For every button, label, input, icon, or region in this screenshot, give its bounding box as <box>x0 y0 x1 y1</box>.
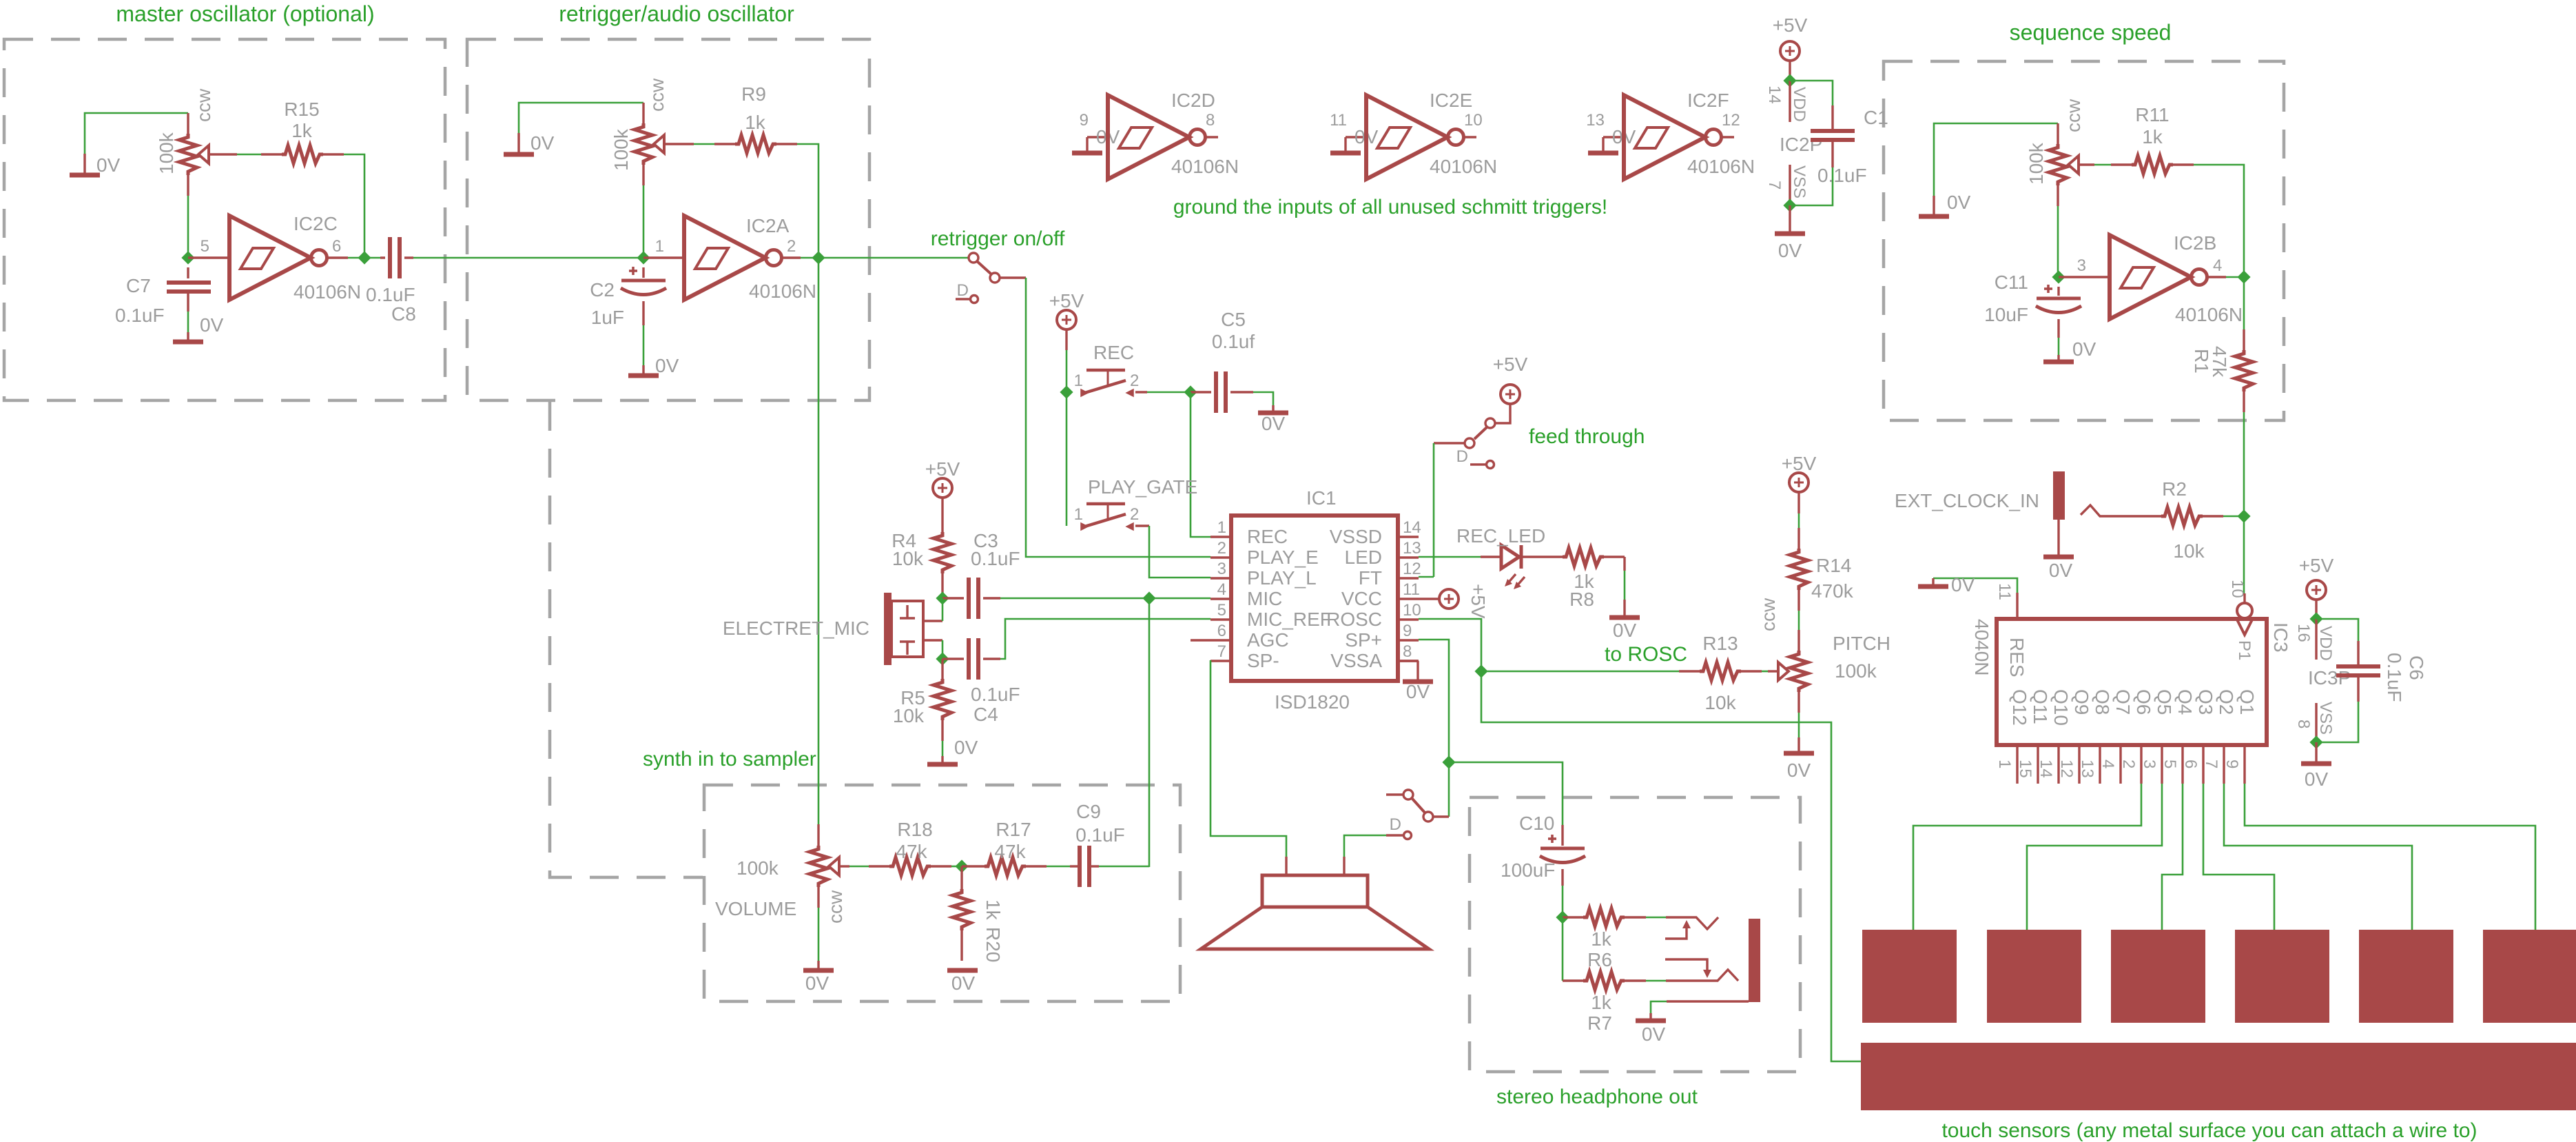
svg-text:0.1uf: 0.1uf <box>1212 331 1255 352</box>
svg-text:ccw: ccw <box>1758 598 1779 631</box>
svg-text:10k: 10k <box>2173 540 2205 562</box>
ground 0V (R8) <box>1609 600 1640 641</box>
wire C3 to MIC pin4 <box>1000 598 1210 600</box>
pin number 2 (PLAY_GATE) <box>1130 505 1139 524</box>
label 100k (sequence pot) <box>2026 142 2047 185</box>
svg-text:100k: 100k <box>2026 142 2047 185</box>
node MIC_REF <box>938 654 948 664</box>
svg-text:10uF: 10uF <box>1984 304 2028 325</box>
resistor R4 10k <box>934 498 951 594</box>
label 0.1uF (C8) <box>366 284 415 305</box>
label 40106N (IC2B) <box>2175 304 2243 325</box>
svg-text:12: 12 <box>1722 111 1740 130</box>
resistor R11 1k <box>2111 156 2194 174</box>
resistor R17 47k <box>962 857 1047 875</box>
svg-text:5: 5 <box>1217 601 1226 620</box>
wire R18 to node <box>951 866 962 868</box>
svg-text:VOLUME: VOLUME <box>715 898 796 919</box>
wire C5 node to REC pin1 of IC1 <box>1191 392 1210 537</box>
label R1 <box>2191 349 2212 374</box>
svg-text:0V: 0V <box>200 314 224 336</box>
schmitt inverter IC2E (unused) <box>1330 90 1497 179</box>
wire node to P1 pin10 <box>2243 516 2245 593</box>
jack EXT_CLOCK_IN <box>2053 471 2141 520</box>
svg-text:LED: LED <box>1345 547 1382 568</box>
ground 0V (C11) <box>2043 338 2096 362</box>
ground 0V (C2) <box>628 355 679 376</box>
svg-text:1: 1 <box>1074 505 1083 524</box>
svg-text:100k: 100k <box>156 132 177 174</box>
svg-text:7: 7 <box>1765 181 1784 190</box>
svg-text:0V: 0V <box>1613 620 1637 641</box>
svg-text:1: 1 <box>1074 371 1083 390</box>
svg-text:7: 7 <box>2202 759 2220 768</box>
svg-text:6: 6 <box>1217 622 1226 640</box>
node input IC2B <box>2054 272 2064 283</box>
ground 0V (master top-left) <box>70 154 121 176</box>
svg-text:47k: 47k <box>994 841 1026 862</box>
svg-text:0V: 0V <box>1642 1023 1666 1045</box>
svg-text:40106N: 40106N <box>293 281 361 303</box>
svg-text:0V: 0V <box>2305 768 2329 790</box>
dashed box: sequence speed region <box>1884 61 2284 420</box>
svg-text:1k: 1k <box>291 120 313 141</box>
wire C7 to ground <box>187 312 189 332</box>
svg-text:0.1uF: 0.1uF <box>971 684 1020 705</box>
svg-text:C2: C2 <box>590 279 615 300</box>
label PITCH <box>1833 633 1890 654</box>
label 10k (R4) <box>892 548 924 569</box>
svg-text:R20: R20 <box>982 927 1004 962</box>
wire mic- to ref node <box>942 640 944 659</box>
ground 0V (retrigger top-left) <box>504 132 555 154</box>
svg-text:R17: R17 <box>996 819 1031 840</box>
label IC1 <box>1306 487 1337 509</box>
schmitt inverter IC2F (unused) <box>1586 90 1755 179</box>
svg-text:11: 11 <box>1995 583 2014 600</box>
capacitor C9 0.1uF <box>1070 846 1099 887</box>
svg-text:ISD1820: ISD1820 <box>1275 691 1350 713</box>
svg-text:MIC: MIC <box>1247 588 1282 609</box>
label IC3 <box>2270 622 2291 653</box>
svg-text:1k: 1k <box>2142 126 2163 147</box>
svg-text:8: 8 <box>1403 642 1412 661</box>
svg-text:0V: 0V <box>1787 759 1811 781</box>
label C3 <box>973 530 998 551</box>
svg-text:15: 15 <box>2016 759 2034 778</box>
label 0.1uF (C1) <box>1817 165 1867 186</box>
pin number 1 (REC) <box>1074 371 1083 390</box>
svg-text:1k: 1k <box>982 899 1004 921</box>
pin number 4 (IC2B) <box>2213 256 2222 275</box>
touch sensor common bar <box>1861 1043 2576 1110</box>
power +5V (R4) <box>925 458 960 498</box>
svg-text:PITCH: PITCH <box>1833 633 1890 654</box>
wire PITCH to ground <box>1798 713 1800 737</box>
svg-text:C7: C7 <box>126 275 151 296</box>
svg-text:40106N: 40106N <box>1430 156 1497 177</box>
svg-text:470k: 470k <box>1811 580 1854 602</box>
svg-text:+5V: +5V <box>1773 14 1808 36</box>
IC U3 4040N (IC3) <box>1995 580 2267 784</box>
svg-text:IC2B: IC2B <box>2174 232 2216 254</box>
svg-text:Q1: Q1 <box>2236 689 2258 715</box>
label C2 <box>590 279 615 300</box>
label 47k (R17) <box>994 841 1026 862</box>
svg-text:40106N: 40106N <box>1171 156 1239 177</box>
label ground the inputs of all unused schmitt triggers <box>1173 196 1607 218</box>
svg-text:0V: 0V <box>805 972 830 994</box>
svg-text:R14: R14 <box>1816 555 1851 576</box>
wire R13 to PITCH wiper <box>1762 671 1768 673</box>
label 10k (R2) <box>2173 540 2205 562</box>
capacitor C5 0.1uf <box>1191 371 1253 413</box>
ground 0V (IC3 RES) <box>1918 574 1975 595</box>
svg-text:R2: R2 <box>2162 478 2187 500</box>
label R20 <box>982 927 1004 962</box>
label synth in to sampler <box>643 748 816 771</box>
svg-text:1k: 1k <box>1591 928 1612 950</box>
svg-text:C8: C8 <box>391 303 416 325</box>
wire branch to C9 <box>1148 598 1151 867</box>
svg-text:C6: C6 <box>2406 655 2427 680</box>
svg-text:C4: C4 <box>973 704 998 725</box>
svg-text:ccw: ccw <box>646 78 668 112</box>
svg-text:ROSC: ROSC <box>1326 609 1382 630</box>
switch feed through <box>1434 418 1495 448</box>
IC1 pin6 AGC stub <box>1191 639 1231 641</box>
svg-text:VSSA: VSSA <box>1330 650 1382 671</box>
wire RES pin11 to ground <box>1933 578 2017 593</box>
ground 0V (PITCH) <box>1784 737 1814 781</box>
label master oscillator (optional) <box>116 1 374 26</box>
label 40106N (IC2C) <box>293 281 361 303</box>
resistor R8 1k <box>1522 548 1625 571</box>
svg-text:Q3: Q3 <box>2195 689 2216 715</box>
svg-text:47k: 47k <box>896 841 927 862</box>
label REC_LED <box>1456 525 1545 547</box>
label R17 <box>996 819 1031 840</box>
svg-text:2: 2 <box>2119 759 2138 768</box>
IC2P VDD pin <box>1765 61 1809 122</box>
label C9 <box>1076 801 1101 822</box>
resistor R7 1k <box>1563 917 1646 990</box>
wire R15 to output node (master) <box>344 154 364 258</box>
svg-text:synth in to sampler: synth in to sampler <box>643 748 816 771</box>
svg-text:Q4: Q4 <box>2174 689 2196 715</box>
label 1k (R15) <box>291 120 313 141</box>
node MIC bias <box>938 593 948 604</box>
resistor R9 1k <box>714 135 797 153</box>
label ccw (VOLUME pot) <box>825 890 846 924</box>
label to ROSC <box>1605 643 1687 666</box>
inverter IC2C pin5 stub <box>188 256 229 258</box>
label C10 <box>1519 813 1554 834</box>
wire R9 to output node (retrigger) <box>797 144 818 258</box>
svg-text:14: 14 <box>2037 759 2055 778</box>
svg-text:ccw: ccw <box>193 88 214 122</box>
svg-text:100k: 100k <box>736 857 779 879</box>
svg-text:8: 8 <box>2294 720 2313 728</box>
svg-text:Q12: Q12 <box>2009 689 2030 726</box>
svg-text:4: 4 <box>2099 759 2117 768</box>
electret mic ELECTRET_MIC <box>884 593 942 665</box>
svg-text:master oscillator (optional): master oscillator (optional) <box>116 1 374 26</box>
label 40106N (IC2A) <box>749 281 816 302</box>
svg-text:R9: R9 <box>741 83 766 105</box>
svg-text:11: 11 <box>1330 111 1347 130</box>
svg-text:REC: REC <box>1247 526 1288 547</box>
capacitor C11 10uF polarized <box>2036 285 2081 338</box>
wire node to R13 <box>1481 671 1679 673</box>
wire R11 to output node (sequence) <box>2194 165 2244 277</box>
svg-text:retrigger on/off: retrigger on/off <box>931 227 1065 250</box>
node MIC pin4 branch <box>1144 593 1155 604</box>
svg-text:0.1uF: 0.1uF <box>1075 824 1125 846</box>
svg-text:0V: 0V <box>1261 413 1286 434</box>
switch speaker throw D <box>1386 815 1412 839</box>
label R15 <box>284 99 319 120</box>
power +5V (IC3P) <box>2299 555 2334 600</box>
potentiometer VOLUME 100k <box>810 824 849 908</box>
inverter IC2A pin1 stub <box>643 256 684 258</box>
svg-text:8: 8 <box>1206 111 1215 130</box>
label 47k (R18) <box>896 841 927 862</box>
label R9 <box>741 83 766 105</box>
wire ROSC pin10 to node <box>1419 619 1481 671</box>
svg-text:Q5: Q5 <box>2154 689 2175 715</box>
svg-text:2: 2 <box>1217 539 1226 558</box>
svg-text:ELECTRET_MIC: ELECTRET_MIC <box>723 618 869 639</box>
label 100k (retrigger pot) <box>610 128 632 171</box>
label R5 <box>900 687 925 708</box>
resistor R15 1k <box>261 145 344 163</box>
svg-text:+5V: +5V <box>1049 290 1084 312</box>
capacitor C2 1uF polarized <box>621 267 666 325</box>
wire C9 to MIC net <box>1099 866 1149 868</box>
svg-text:R18: R18 <box>897 819 932 840</box>
wire feed switch to FT pin12 <box>1419 443 1434 577</box>
wire C4 to MIC_REF pin5 <box>1000 619 1210 659</box>
label C8 <box>391 303 416 325</box>
svg-text:13: 13 <box>1586 111 1605 130</box>
svg-text:IC2P: IC2P <box>1780 134 1822 155</box>
node REC pin1 <box>1062 387 1072 398</box>
svg-text:1uF: 1uF <box>591 307 624 328</box>
label IC2P <box>1780 134 1822 155</box>
svg-text:9: 9 <box>1080 111 1089 130</box>
label C1 <box>1864 107 1888 128</box>
resistor R14 470k <box>1790 492 1808 630</box>
wire Q6 to sensor 1 <box>1913 784 2141 930</box>
wire Q5 to sensor 2 <box>2027 784 2162 930</box>
wire R6 to jack tip <box>1646 917 1666 919</box>
svg-text:13: 13 <box>2078 759 2096 778</box>
wire 0V to pot ccw (sequence) <box>1934 123 2058 196</box>
touch sensor pad 3 <box>2111 930 2205 1023</box>
capacitor C10 100uF polarized <box>1540 825 1585 886</box>
svg-text:Q2: Q2 <box>2216 689 2237 715</box>
svg-text:IC2F: IC2F <box>1687 90 1729 111</box>
label PLAY_GATE <box>1088 476 1197 498</box>
svg-text:EXT_CLOCK_IN: EXT_CLOCK_IN <box>1895 490 2039 511</box>
wire pot to input node (sequence) <box>2057 206 2059 277</box>
wire wiper to R18 <box>849 866 869 868</box>
svg-text:+5V: +5V <box>1467 584 1489 619</box>
svg-text:47k: 47k <box>2209 346 2230 378</box>
svg-text:R8: R8 <box>1569 589 1594 610</box>
label R14 <box>1816 555 1851 576</box>
wire mic+ to bias node <box>942 598 944 621</box>
label R18 <box>897 819 932 840</box>
svg-text:100k: 100k <box>1835 660 1877 682</box>
svg-text:1: 1 <box>655 237 664 256</box>
switch retrigger unused throw D <box>956 281 978 303</box>
dashed box: stereo headphone out region <box>1470 797 1800 1072</box>
wire R17 to C9 <box>1047 866 1070 868</box>
svg-text:PLAY_L: PLAY_L <box>1247 567 1317 589</box>
svg-text:PLAY_GATE: PLAY_GATE <box>1088 476 1197 498</box>
label C7 <box>126 275 151 296</box>
label C4 <box>973 704 998 725</box>
svg-text:RES: RES <box>2006 638 2028 677</box>
wire C11 to ground <box>2058 338 2060 355</box>
IC3P VSS pin <box>2294 702 2335 748</box>
touch sensor pad 1 <box>1862 930 1957 1023</box>
svg-text:Q10: Q10 <box>2050 689 2072 726</box>
wire retrigger switch to PLAY_E pin2 <box>1026 278 1210 557</box>
svg-text:VSS: VSS <box>2316 702 2335 735</box>
label ccw (sequence pot) <box>2063 99 2084 132</box>
pin number 1 (IC2A) <box>655 237 664 256</box>
svg-text:1: 1 <box>1217 518 1226 537</box>
switch retrigger on/off <box>969 253 1026 283</box>
svg-text:IC2E: IC2E <box>1430 90 1472 111</box>
label C11 <box>1995 272 2028 293</box>
ground 0V (VOLUME) <box>803 961 834 994</box>
IC2P VSS pin <box>1765 165 1809 211</box>
label IC2B <box>2174 232 2216 254</box>
label R13 <box>1702 633 1738 654</box>
label 0.1uF (C3) <box>971 548 1020 569</box>
svg-text:touch sensors (any metal surfa: touch sensors (any metal surface you can… <box>1941 1119 2477 1142</box>
svg-text:C11: C11 <box>1995 272 2028 293</box>
ground 0V (IC3P) <box>2301 742 2331 790</box>
svg-text:D: D <box>957 281 969 300</box>
svg-text:IC2D: IC2D <box>1171 90 1215 111</box>
capacitor C1 0.1uF <box>1790 81 1855 205</box>
svg-text:1k: 1k <box>745 112 766 133</box>
label 1k (R7) <box>1591 992 1612 1013</box>
label ELECTRET_MIC <box>723 618 869 639</box>
label EXT_CLOCK_IN <box>1895 490 2039 511</box>
wire SP- pin7 to speaker <box>1210 660 1286 857</box>
touch sensor pad 4 <box>2235 930 2329 1023</box>
svg-text:12: 12 <box>1403 560 1421 578</box>
svg-text:ground the inputs of all unuse: ground the inputs of all unused schmitt … <box>1173 196 1607 218</box>
svg-text:R15: R15 <box>284 99 319 120</box>
svg-text:Q8: Q8 <box>2092 689 2113 715</box>
svg-text:2: 2 <box>1130 505 1139 524</box>
svg-text:0.1uF: 0.1uF <box>2384 653 2405 702</box>
label R4 <box>892 530 916 551</box>
node R18/R17/R20 <box>957 861 967 872</box>
label 10uF (C11) <box>1984 304 2028 325</box>
node R1/R2/P1 <box>2239 511 2249 522</box>
svg-text:stereo headphone out: stereo headphone out <box>1496 1085 1698 1108</box>
label 1k (R8) <box>1574 571 1595 592</box>
svg-text:retrigger/audio oscillator: retrigger/audio oscillator <box>559 1 794 26</box>
pin number 3 (IC2B) <box>2077 256 2086 275</box>
switch feed through unused throw D <box>1456 447 1494 469</box>
node input IC2C <box>183 253 194 263</box>
wire pot to input node (master) <box>187 196 189 258</box>
label 1uF (C2) <box>591 307 624 328</box>
svg-text:IC3P: IC3P <box>2308 667 2351 689</box>
svg-text:SP-: SP- <box>1247 650 1279 671</box>
wire R8 to ground <box>1624 571 1626 600</box>
svg-text:0V: 0V <box>1947 192 1971 213</box>
dashed box: synth in to sampler region <box>704 785 1180 1001</box>
IC2A output stub <box>782 256 801 258</box>
wire Q2 to sensor 5 <box>2224 784 2412 930</box>
svg-text:PLAY_E: PLAY_E <box>1247 547 1319 568</box>
label IC2C <box>293 213 338 234</box>
wire R2 to node <box>2223 516 2244 518</box>
svg-text:SP+: SP+ <box>1345 629 1382 651</box>
svg-text:0.1uF: 0.1uF <box>115 305 165 326</box>
label R11 <box>2135 104 2169 125</box>
wire ROSC node to touch bar <box>1481 671 1861 1061</box>
power +5V (IC1 VCC pin11) <box>1419 584 1489 619</box>
wire 0V to pot ccw (master) <box>85 113 188 154</box>
svg-text:Q9: Q9 <box>2071 689 2092 715</box>
svg-text:4: 4 <box>1217 580 1226 599</box>
svg-text:0V: 0V <box>1951 574 1975 595</box>
label 100k (PITCH) <box>1835 660 1877 682</box>
svg-text:9: 9 <box>1403 622 1412 640</box>
svg-text:0.1uF: 0.1uF <box>1817 165 1867 186</box>
capacitor C6 0.1uF <box>2316 619 2380 742</box>
pin number 1 (PLAY_GATE) <box>1074 505 1083 524</box>
svg-text:C10: C10 <box>1519 813 1554 834</box>
svg-text:0.1uF: 0.1uF <box>971 548 1020 569</box>
label ccw (master pot) <box>193 88 214 122</box>
wire pot wiper to R11 <box>2094 164 2111 166</box>
ground 0V (EXT_CLOCK_IN) <box>2043 520 2074 581</box>
svg-text:0V: 0V <box>655 355 679 376</box>
wire branch IC2A out to volume pot <box>818 258 820 824</box>
node output IC2B <box>2239 272 2249 283</box>
resistor R5 10k <box>934 659 951 741</box>
label 0.1uF (C6) <box>2384 653 2405 702</box>
PLAY_GATE pin2 stub <box>1135 524 1149 527</box>
svg-text:feed through: feed through <box>1529 425 1645 448</box>
svg-text:D: D <box>1390 815 1401 834</box>
svg-text:ccw: ccw <box>2063 99 2084 132</box>
ground 0V (R20) <box>947 970 978 994</box>
label retrigger on/off <box>931 227 1065 250</box>
switch speaker select <box>1386 790 1449 822</box>
ground 0V (C7) <box>173 314 224 342</box>
svg-text:40106N: 40106N <box>2175 304 2243 325</box>
label 1k (R6) <box>1591 928 1612 950</box>
schmitt inverter IC2A <box>684 216 782 300</box>
pin number 5 (IC2C) <box>200 237 209 256</box>
label ccw (retrigger pot) <box>646 78 668 112</box>
svg-text:0V: 0V <box>1778 240 1802 261</box>
power +5V (REC) <box>1049 290 1084 329</box>
